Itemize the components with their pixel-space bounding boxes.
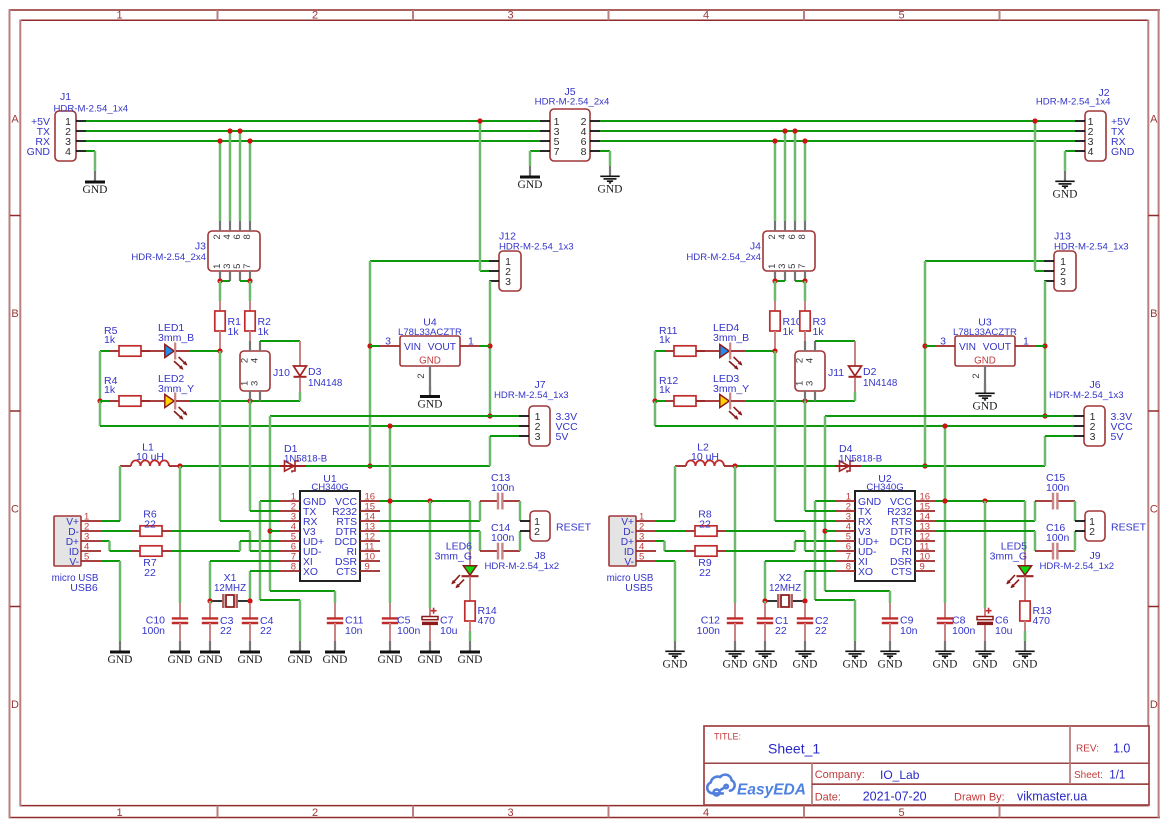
ground GND for U1 pin1: [299, 641, 301, 651]
svg-text:1.0: 1.0: [1113, 742, 1130, 756]
svg-text:8: 8: [846, 561, 851, 572]
svg-text:HDR-M-2.54_1x3: HDR-M-2.54_1x3: [494, 390, 569, 401]
wire RTS row: [935, 520, 1035, 522]
polarized capacitor C7 10u: [429, 608, 431, 617]
junction at (430,501): [427, 498, 432, 503]
svg-text:HDR-M-2.54_1x4: HDR-M-2.54_1x4: [1036, 97, 1111, 108]
junction at (180,466): [177, 463, 182, 468]
title block frame: [704, 726, 1149, 805]
resistor R14 470: [469, 577, 471, 602]
IC U1 CH340G: [300, 491, 360, 581]
junction on RX rail at x=220: [217, 138, 222, 143]
svg-text:3: 3: [1060, 276, 1066, 288]
svg-text:1N5818-B: 1N5818-B: [284, 454, 327, 465]
svg-text:GND: GND: [973, 658, 998, 670]
svg-text:HDR-M-2.54_1x2: HDR-M-2.54_1x2: [1040, 561, 1115, 572]
wire J11 pin4 to D2: [815, 340, 855, 342]
svg-text:4: 4: [65, 146, 71, 158]
resistor R8 22: [686, 530, 695, 532]
capacitor C16 100n: [1035, 550, 1052, 552]
J13 pin stubs and numbers: [1044, 260, 1054, 262]
svg-text:HDR-M-2.54_2x4: HDR-M-2.54_2x4: [686, 252, 761, 263]
wire left riser to R12: [655, 400, 665, 402]
svg-text:3: 3: [940, 336, 946, 348]
svg-text:100n: 100n: [1046, 532, 1070, 544]
ground GND below J5 pin7: [529, 166, 531, 176]
wire X1 left to C3: [209, 601, 212, 603]
wire U3 VOUT to riser: [1035, 345, 1045, 347]
regulator U3 L78L33ACZTR: [955, 336, 1015, 366]
svg-text:HDR-M-2.54_2x4: HDR-M-2.54_2x4: [535, 97, 610, 108]
svg-text:HDR-M-2.54_1x4: HDR-M-2.54_1x4: [54, 104, 129, 115]
svg-text:Sheet_1: Sheet_1: [768, 741, 820, 757]
led LED2 3mm_Y: [142, 400, 164, 402]
svg-text:1k: 1k: [228, 326, 240, 338]
wire USB D+ to R7: [101, 540, 110, 542]
wire J3 pins 5-7 join: [240, 280, 250, 282]
junction at J4 pin7: [802, 278, 807, 283]
wire 5V row right of D4: [861, 465, 1045, 467]
J11 pin stubs and numbers: [804, 341, 806, 351]
led LED5 3mm_G: [1024, 551, 1026, 565]
svg-text:Company:: Company:: [815, 769, 865, 781]
junction at (210,601): [207, 598, 212, 603]
svg-text:IO_Lab: IO_Lab: [880, 768, 920, 782]
wire left riser to R4: [100, 400, 110, 402]
wire U1 RX pin3: [219, 351, 222, 521]
svg-text:GND: GND: [933, 658, 958, 670]
svg-text:2021-07-20: 2021-07-20: [863, 790, 927, 804]
svg-text:HDR-M-2.54_1x2: HDR-M-2.54_1x2: [485, 561, 560, 572]
junction at (100,401): [97, 398, 102, 403]
svg-text:470: 470: [478, 615, 496, 627]
svg-text:8: 8: [797, 234, 808, 239]
wire U2 TX pin2: [804, 401, 807, 511]
ground GND below USB: [119, 641, 121, 651]
wire U4 VOUT to riser: [480, 345, 490, 347]
wire C10 riser: [179, 466, 182, 603]
svg-text:22: 22: [699, 567, 711, 579]
svg-text:GND: GND: [598, 183, 623, 195]
ground GND below C7: [429, 641, 431, 651]
resistor R7 22: [131, 550, 140, 552]
wire C14 to J8 pin2: [519, 531, 522, 551]
svg-text:GND: GND: [518, 179, 543, 191]
wire 5V to J7 pin3: [489, 436, 492, 466]
junction on TX rail at x=795: [792, 128, 797, 133]
svg-text:CTS: CTS: [336, 567, 357, 578]
svg-text:2: 2: [971, 373, 982, 378]
svg-text:1: 1: [1023, 336, 1029, 348]
svg-text:9: 9: [365, 561, 370, 572]
junction at J4 pin1: [772, 278, 777, 283]
svg-text:GND: GND: [1111, 146, 1135, 158]
capacitor C12 100n: [734, 603, 736, 618]
junction +5V rail at (480,121): [477, 118, 482, 123]
svg-text:Sheet:: Sheet:: [1074, 770, 1103, 781]
svg-text:8: 8: [242, 234, 253, 239]
svg-text:GND: GND: [378, 654, 403, 666]
svg-text:CTS: CTS: [891, 567, 912, 578]
svg-text:5: 5: [898, 807, 904, 819]
svg-text:1k: 1k: [104, 384, 116, 396]
ground GND below U3: [984, 383, 986, 393]
svg-text:10u: 10u: [995, 625, 1013, 637]
wire 5V row right of D1: [306, 465, 490, 467]
svg-text:22: 22: [220, 625, 232, 637]
capacitor C4 22: [249, 603, 251, 618]
svg-text:GND: GND: [27, 146, 51, 158]
junction +5V rail at (1035,121): [1032, 118, 1037, 123]
wire X2 left to C1: [764, 601, 767, 603]
svg-text:3: 3: [250, 381, 261, 386]
svg-text:XO: XO: [858, 567, 873, 578]
svg-text:CH340G: CH340G: [311, 482, 348, 493]
wire C7 riser: [429, 501, 432, 608]
wire L1 left to USB V+: [119, 466, 122, 521]
svg-text:RESET: RESET: [556, 522, 592, 534]
wire R14 to ground: [469, 631, 472, 641]
svg-text:EasyEDA: EasyEDA: [737, 782, 806, 799]
wire VCC pin16 row: [935, 500, 1025, 502]
ground GND below C6: [984, 641, 986, 651]
connector J2 HDR-M-2.54_1x4: [1085, 111, 1106, 161]
U4 pin lines: [380, 345, 400, 347]
ground GND below J2: [1064, 171, 1066, 181]
capacitor C11 10n: [334, 603, 336, 618]
capacitor C5 100n: [389, 603, 391, 618]
wire C15 to J9 pin1: [1074, 501, 1077, 521]
connector J5 HDR-M-2.54_2x4: [550, 109, 590, 161]
svg-text:VIN: VIN: [959, 342, 976, 353]
ground GND below R13: [1024, 641, 1026, 651]
svg-text:TITLE:: TITLE:: [714, 732, 741, 742]
connector J1 HDR-M-2.54_1x4: [55, 111, 76, 161]
ground GND below J5 pin8: [609, 166, 611, 176]
wire D2 to lower LED row: [854, 392, 857, 401]
wire VCC riser to C8: [944, 426, 947, 603]
wire rail to J3 pin4: [229, 131, 232, 221]
svg-text:22: 22: [144, 519, 156, 531]
J4 pin stubs and numbers: [774, 221, 776, 231]
svg-text:J11: J11: [828, 367, 844, 379]
wire U2 GND pin1: [815, 500, 835, 502]
svg-text:10u: 10u: [440, 625, 458, 637]
svg-text:VIN: VIN: [404, 342, 421, 353]
svg-text:5: 5: [84, 551, 89, 562]
ground GND below C1: [764, 641, 766, 651]
svg-text:3mm_Y: 3mm_Y: [158, 383, 194, 395]
svg-text:3: 3: [507, 10, 513, 22]
svg-text:9: 9: [920, 561, 925, 572]
wire R9 to UD+: [726, 550, 795, 552]
svg-text:HDR-M-2.54_1x3: HDR-M-2.54_1x3: [1049, 390, 1124, 401]
junction at (985,501): [982, 498, 987, 503]
svg-text:8: 8: [291, 561, 296, 572]
wire USB V- to ground: [101, 560, 120, 562]
junction at (220,351): [217, 348, 222, 353]
junction on RX rail at x=805: [802, 138, 807, 143]
wire USB D- to R8: [656, 530, 686, 532]
wire 3.3V riser down: [269, 416, 272, 591]
schottky diode D1 1N5818-B: [280, 465, 306, 467]
svg-text:3mm_G: 3mm_G: [990, 551, 1027, 563]
svg-text:7: 7: [554, 146, 560, 158]
J1 pin stubs and numbers: [76, 120, 86, 122]
wire DTR row: [935, 530, 1035, 532]
resistor R4 1k: [110, 400, 119, 402]
D2 cathode lead: [854, 378, 856, 393]
junction at J3 pin7: [247, 278, 252, 283]
junction at (945,501): [942, 498, 947, 503]
svg-text:1N5818-B: 1N5818-B: [839, 454, 882, 465]
svg-text:2: 2: [312, 807, 318, 819]
wire U2 XO pin8: [804, 571, 807, 601]
svg-text:10 uH: 10 uH: [136, 451, 164, 463]
junction 5V row at (925,466): [922, 463, 927, 468]
svg-text:4: 4: [703, 807, 709, 819]
ground GND below J1: [94, 171, 96, 181]
D3 cathode lead: [299, 378, 301, 393]
J7 pin stubs and numbers: [519, 415, 529, 417]
svg-text:GND: GND: [418, 399, 443, 411]
junction 3.3V row at (1045,416): [1042, 413, 1047, 418]
svg-text:3: 3: [507, 807, 513, 819]
junction on RX rail at x=250: [247, 138, 252, 143]
capacitor C13 100n: [480, 500, 497, 502]
wire J10 pin4 to D3: [260, 340, 300, 342]
svg-text:12MHZ: 12MHZ: [769, 583, 801, 594]
svg-text:USB5: USB5: [625, 582, 653, 594]
svg-text:8: 8: [581, 146, 587, 158]
junction at (805,401): [802, 398, 807, 403]
connector J6 HDR-M-2.54_1x3: [1084, 406, 1105, 446]
wire C10 riser: [734, 466, 737, 603]
svg-text:12MHZ: 12MHZ: [214, 583, 246, 594]
ground GND below R14: [469, 641, 471, 651]
resistor R1 1k: [219, 301, 221, 311]
connector micro USB USB5: [609, 516, 636, 566]
junction V3 at (270,531): [267, 528, 272, 533]
svg-text:B: B: [1150, 308, 1157, 320]
svg-text:22: 22: [775, 625, 787, 637]
svg-text:A: A: [11, 114, 19, 126]
svg-text:1N4148: 1N4148: [863, 378, 898, 389]
wire U1 V3 pin4: [270, 530, 280, 532]
title block dividers: [1069, 726, 1071, 763]
connector J8 HDR-M-2.54_1x2: [530, 511, 550, 541]
svg-text:GND: GND: [198, 654, 223, 666]
svg-text:22: 22: [144, 567, 156, 579]
connector J11 HDR-M-2.54_2x2: [795, 351, 825, 391]
wire VCC riser to C5: [389, 426, 392, 603]
svg-text:GND: GND: [288, 654, 313, 666]
U2 pins, numbers, names: [835, 500, 855, 502]
wire J3 pin1 down to R1: [219, 281, 222, 301]
wire U1 XI pin7: [209, 561, 212, 601]
wire D3 to lower LED row: [299, 392, 302, 401]
wire J12 pin1 to 5V riser: [370, 260, 489, 262]
resistor R11 1k: [665, 350, 674, 352]
junction 5V row at (370,466): [367, 463, 372, 468]
wire LED row lower: [190, 400, 300, 402]
svg-text:B: B: [11, 308, 18, 320]
capacitor C3 22: [209, 603, 211, 618]
resistor R13 470: [1024, 577, 1026, 602]
junction 3.3V row at (490,416): [487, 413, 492, 418]
resistor R10 1k: [774, 301, 776, 311]
wire rail to J3 pin2: [219, 141, 222, 221]
wire RX rail left: [86, 140, 540, 142]
svg-text:7: 7: [242, 264, 253, 269]
J3 pin stubs and numbers: [219, 221, 221, 231]
sheet border frame: [9, 9, 1160, 11]
regulator U4 L78L33ACZTR: [400, 336, 460, 366]
svg-text:XO: XO: [303, 567, 318, 578]
wire J5 pin8 to ground: [600, 150, 610, 152]
wire TX rail left: [86, 130, 540, 132]
svg-text:L78L33ACZTR: L78L33ACZTR: [953, 327, 1017, 338]
IC U2 CH340G: [855, 491, 915, 581]
ground GND below C2: [804, 641, 806, 651]
svg-text:D2: D2: [863, 366, 877, 378]
led LED3 3mm_Y: [697, 400, 719, 402]
wire J3 pin7 down to R2: [249, 281, 252, 301]
svg-text:GND: GND: [973, 400, 998, 412]
wire J12 pin2 to +5V rail: [480, 270, 489, 272]
led LED4 3mm_B: [696, 350, 719, 352]
junction VCC row at (390,426): [387, 423, 392, 428]
svg-text:A: A: [1150, 114, 1158, 126]
wire U1 TX pin2: [249, 401, 252, 511]
D2 anode lead: [854, 341, 856, 366]
svg-text:3mm_Y: 3mm_Y: [713, 383, 749, 395]
svg-text:VOUT: VOUT: [983, 342, 1011, 353]
wire U2 RX pin3: [774, 351, 777, 521]
wire 5V riser to U4 VIN: [370, 345, 380, 347]
wire R7 to UD+: [171, 550, 240, 552]
connector J12 HDR-M-2.54_1x3: [499, 251, 521, 291]
wire J1 pin4 to ground: [86, 150, 95, 152]
U3 pin lines: [935, 345, 955, 347]
junction on TX rail at x=240: [237, 128, 242, 133]
wire LED row upper: [745, 350, 775, 352]
J9 pin stubs and numbers: [1075, 520, 1085, 522]
ground GND for U2 pin1: [854, 641, 856, 651]
inductor L2 10 uH: [675, 465, 686, 467]
resistor R3 1k: [804, 301, 806, 311]
wire R8 to UD-: [726, 530, 805, 532]
resistor R12 1k: [665, 400, 674, 402]
svg-text:1k: 1k: [659, 384, 671, 396]
svg-text:GND: GND: [723, 658, 748, 670]
wire LED row lower: [745, 400, 855, 402]
svg-text:1k: 1k: [258, 326, 270, 338]
wire R6 to UD-: [171, 530, 250, 532]
svg-text:100n: 100n: [491, 532, 515, 544]
junction VIN riser at (370,346): [367, 343, 372, 348]
svg-text:GND: GND: [878, 658, 903, 670]
svg-text:C: C: [11, 504, 19, 516]
wire U2 XI pin7: [764, 561, 767, 601]
connector J7 HDR-M-2.54_1x3: [529, 406, 550, 446]
svg-text:3: 3: [535, 431, 541, 443]
junction VIN riser at (925,346): [922, 343, 927, 348]
svg-text:4: 4: [250, 358, 261, 363]
resistor R2 1k: [249, 301, 251, 311]
USB5 pins, numbers and names: [636, 520, 656, 522]
schottky diode D4 1N5818-B: [835, 465, 861, 467]
wire J4 pin7 down to R3: [804, 281, 807, 301]
polarized capacitor C6 10u: [984, 608, 986, 617]
junction at (805,601): [802, 598, 807, 603]
junction at J3 pin1: [217, 278, 222, 283]
svg-text:2: 2: [1089, 526, 1095, 538]
wire RTS row: [380, 520, 480, 522]
resistor R9 22: [686, 550, 695, 552]
svg-text:GND: GND: [458, 654, 483, 666]
wire 5V riser to U3 VIN: [925, 345, 935, 347]
svg-text:D: D: [11, 699, 19, 711]
junction at (765,601): [762, 598, 767, 603]
svg-text:J1: J1: [60, 91, 71, 103]
wire 3.3V row: [825, 415, 1074, 417]
wire 3.3V riser down: [824, 416, 827, 591]
ground GND below C8: [944, 641, 946, 651]
J6 pin stubs and numbers: [1074, 415, 1084, 417]
svg-text:4: 4: [805, 358, 816, 363]
svg-text:4: 4: [703, 10, 709, 22]
wire USB V- to ground: [656, 560, 675, 562]
wire rail to J3 pin6: [239, 131, 242, 221]
svg-text:1k: 1k: [104, 334, 116, 346]
svg-text:GND: GND: [108, 654, 133, 666]
capacitor C2 22: [804, 603, 806, 618]
wire VCC pin16 row: [380, 500, 470, 502]
svg-text:GND: GND: [663, 658, 688, 670]
svg-text:470: 470: [1033, 615, 1051, 627]
wire +5V rail right: [600, 120, 1075, 122]
svg-text:100n: 100n: [1046, 482, 1070, 494]
wire U2 V3 pin4: [825, 530, 835, 532]
resistor R6 22: [131, 530, 140, 532]
svg-text:GND: GND: [419, 356, 441, 367]
wire left riser to VCC row: [99, 401, 102, 426]
crystal X1 12MHZ: [210, 600, 223, 602]
svg-text:100n: 100n: [952, 625, 976, 637]
svg-text:100n: 100n: [491, 482, 515, 494]
svg-text:22: 22: [815, 625, 827, 637]
svg-text:GND: GND: [793, 658, 818, 670]
wire 5V to J6 pin3: [1044, 436, 1047, 466]
resistor R5 1k: [110, 350, 119, 352]
wire 5V row: [735, 465, 835, 467]
J5 pin stubs and numbers: [540, 120, 550, 122]
svg-text:V-: V-: [624, 557, 634, 568]
svg-text:HDR-M-2.54_1x3: HDR-M-2.54_1x3: [1054, 242, 1129, 253]
wire J2 pin4 to ground: [1065, 150, 1075, 152]
wire DTR row: [380, 530, 480, 532]
USB6 pins, numbers and names: [81, 520, 101, 522]
svg-text:HDR-M-2.54_2x4: HDR-M-2.54_2x4: [131, 252, 206, 263]
wire rail to J3 pin8: [249, 141, 252, 221]
D3 anode lead: [299, 341, 301, 366]
wire LED row upper: [190, 350, 220, 352]
wire 3.3V row: [270, 415, 519, 417]
wire J5 pin7 to ground: [530, 150, 540, 152]
svg-text:5V: 5V: [1111, 431, 1124, 443]
junction at (250,601): [247, 598, 252, 603]
